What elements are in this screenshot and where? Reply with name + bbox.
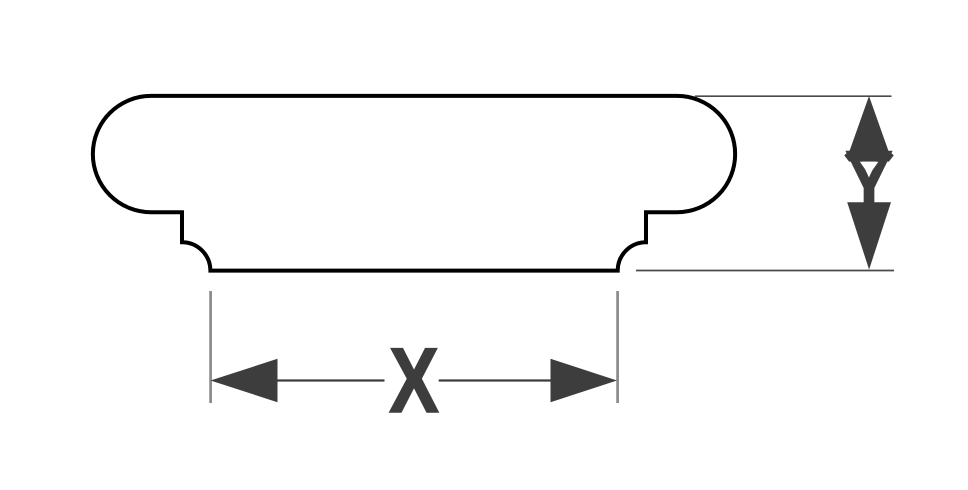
extension line left vertical [209, 291, 212, 403]
X dimension label [389, 329, 439, 432]
Y label white notch [860, 162, 879, 175]
extension line bottom [636, 270, 894, 272]
extension line top [695, 95, 892, 97]
X dimension line right segment [439, 379, 551, 381]
extension line right vertical [616, 291, 619, 403]
X dimension right arrowhead [551, 359, 618, 402]
svg-text:X: X [389, 329, 439, 432]
molding profile outline [93, 96, 735, 271]
Y dimension down arrowhead [847, 202, 891, 269]
X dimension left arrowhead [211, 359, 278, 402]
X dimension line left segment [277, 379, 385, 381]
Y dimension up arrowhead [844, 96, 894, 162]
Y dimension label [844, 130, 894, 233]
